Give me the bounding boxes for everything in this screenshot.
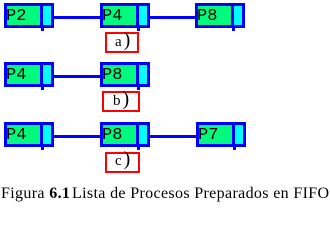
node P4 (row c): [4, 122, 54, 147]
pointer cell of P8: [231, 6, 242, 25]
pointer cell: [232, 125, 243, 144]
label box c): [105, 152, 140, 173]
node P4 (row a): [100, 3, 150, 28]
node P7 (row c): [196, 122, 246, 147]
divider stub: [233, 147, 236, 150]
divider stub: [41, 87, 44, 90]
pointer cell: [136, 65, 147, 84]
divider stub: [137, 147, 140, 150]
divider stub below P8: [232, 28, 235, 31]
node P8 (row c): [100, 122, 150, 147]
node P4 (row b): [4, 62, 54, 87]
divider stub below P2: [41, 28, 44, 31]
label box b): [102, 91, 140, 112]
divider stub: [137, 87, 140, 90]
wire P2 to P4: [52, 16, 102, 19]
wire P4 to P8 (row c): [52, 135, 102, 138]
caption: [1, 186, 329, 202]
pointer cell of P4: [136, 6, 147, 25]
node P8 (row b): [100, 62, 150, 87]
node P8 (row a): [195, 3, 245, 28]
wire P4 to P8: [148, 16, 197, 19]
divider stub: [41, 147, 44, 150]
pointer cell of P2: [40, 6, 51, 25]
node P2: [4, 3, 54, 28]
wire P4 to P8 (row b): [52, 75, 102, 78]
pointer cell: [40, 125, 51, 144]
label box a): [105, 32, 139, 53]
divider stub below P4: [137, 28, 140, 31]
pointer cell: [40, 65, 51, 84]
pointer cell: [136, 125, 147, 144]
wire P8 to P7 (row c): [148, 135, 198, 138]
